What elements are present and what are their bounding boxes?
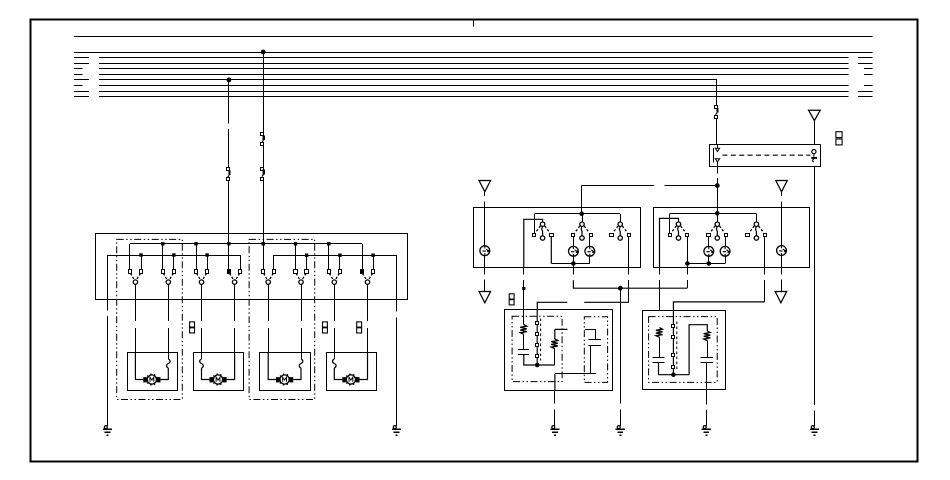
bus left stub 5: [74, 79, 89, 81]
relay unit left box: [505, 310, 613, 391]
connector hook in M2: [200, 359, 204, 372]
switch S2 blade dashes: [163, 273, 173, 280]
connector marker C3 squares: [357, 322, 362, 327]
wire lamp2 top: [589, 237, 591, 247]
junction dot on bus line 5: [227, 78, 231, 82]
bus left stub 1: [74, 57, 89, 59]
cap L2 lower stub: [590, 345, 592, 374]
wire motor M2 right lead: [227, 353, 235, 380]
junction dot W-C: [618, 286, 622, 290]
wire motor M3 right lead upper: [301, 353, 303, 359]
wire bus drop D1 upper: [228, 80, 230, 124]
wire cap RB exit: [706, 363, 708, 390]
right box rail: [670, 213, 757, 215]
switch S7 contact R: [339, 270, 342, 274]
wire rail corner to A left contact: [669, 213, 671, 233]
wire bus drop D3 lower: [716, 119, 718, 145]
wire lampR2 bottom: [725, 256, 727, 263]
wire bus drop D2 upper: [263, 52, 265, 133]
wire W-C ground drop: [620, 288, 622, 403]
junction dot rail P above contact 2L: [161, 242, 164, 245]
wire S8 pole to motor upper: [367, 299, 369, 321]
switch S8 blade dashes: [363, 273, 373, 280]
wire S1 pole to motor lower: [135, 328, 137, 353]
wire contact 7L to rail P: [328, 244, 330, 270]
window motor box M1: [128, 353, 178, 391]
switch S7 blade dashes: [329, 273, 339, 280]
wire contact 4R to rail G: [240, 255, 242, 270]
junction dot under lamp right: [707, 262, 711, 266]
window motor box M4: [327, 353, 377, 391]
wire S6 pole to motor upper: [301, 299, 303, 321]
wire arrow to strip: [814, 121, 816, 145]
wire A-out to lower box: [659, 268, 661, 275]
wire pole S5 down: [268, 284, 270, 299]
under-lamp wire left box: [551, 263, 590, 265]
wire motor M1 left lead: [135, 353, 143, 380]
strip right terminal bar: [811, 157, 817, 159]
wire contact 1L to rail P: [129, 244, 131, 270]
wire contact 2L to rail P: [162, 244, 164, 270]
wire left ground L-exit: [554, 374, 556, 390]
switch S5 pole: [266, 280, 270, 284]
switch S5 blade dashes: [264, 273, 273, 280]
wire contact 4L to rail P: [228, 244, 230, 270]
wire W-B right riser upper: [764, 268, 766, 275]
switch S5 contact R: [273, 270, 276, 274]
junction dot rail P above contact 6L: [294, 242, 297, 245]
coil RB: [704, 331, 711, 341]
wire contact 5R to rail G: [273, 255, 275, 270]
motor M1: [147, 375, 156, 384]
junction dot left rail: [580, 212, 584, 216]
ground G5: [703, 426, 706, 429]
capacitor L2 plates: [589, 339, 602, 341]
wire C right contact down: [764, 237, 766, 268]
switch S3 pole: [199, 280, 203, 284]
wire bus drop D1 lower: [228, 181, 230, 244]
junction dot on bus line B: [261, 50, 265, 54]
wire B pivot to rail: [717, 213, 719, 222]
wire coil LB down: [554, 349, 556, 365]
wire motor M4 left lead upper: [334, 353, 336, 359]
wire W-B right riser lower: [764, 280, 766, 302]
switch S7 pole: [332, 280, 336, 284]
wire lamps-common upper: [573, 264, 575, 275]
strip right hook: [813, 154, 814, 162]
ground G1: [104, 426, 107, 429]
connector strip dashed line: [722, 154, 810, 156]
bus line A: [74, 36, 873, 38]
capacitor RA plates: [653, 357, 665, 359]
wire ground G5 upper: [706, 390, 708, 405]
strip left terminal upper: [715, 148, 719, 151]
right box switch C: [754, 222, 758, 226]
right box switch A: [676, 222, 680, 226]
left box switch 2: [580, 222, 584, 226]
wire T1 to box: [484, 202, 486, 208]
wire S4 pole to motor lower: [234, 328, 236, 353]
wire mid branch right: [689, 325, 707, 375]
wire lampR1 top: [708, 237, 710, 247]
wire left lamp riser: [484, 208, 486, 246]
wire drop D2 to contact 5L: [263, 244, 265, 270]
wire motor M4 right lead: [360, 353, 368, 380]
wire pole S4 down: [234, 284, 236, 299]
window motor box M2: [194, 353, 244, 391]
inline connector filled: [522, 287, 525, 290]
frame top tick: [473, 20, 475, 26]
switch S2 contact L: [162, 270, 165, 274]
wire bus drop D2 lower: [263, 180, 265, 243]
junction dot rail G2 above contact 6R: [305, 254, 308, 257]
motor M3: [280, 375, 289, 384]
wire motor M1 right lead lower: [160, 372, 168, 380]
wire W-B left riser upper: [628, 268, 630, 275]
connector marker C4 squares: [836, 132, 842, 138]
wire S2 pole to motor lower: [168, 328, 170, 353]
switch S3 contact L: [195, 270, 198, 274]
wire motor M3 left lead: [268, 353, 276, 380]
wire ground G2 riser: [396, 255, 398, 311]
wire A right contact down: [687, 237, 689, 268]
wire ground G3 upper: [554, 390, 556, 403]
dash-dot case door unit 1: [117, 239, 183, 399]
junction dot rail P above contact 3L: [194, 242, 197, 245]
wire S1 pivot L-wire: [524, 219, 543, 267]
connector hook in M3: [299, 359, 303, 372]
switch S4 contact R: [239, 270, 242, 274]
wire right lamp out upper: [781, 268, 783, 275]
switch S6 pole: [299, 280, 303, 284]
lamp R1: [704, 246, 714, 256]
switch S1 blade dashes: [131, 273, 141, 280]
wire ground G2 riser lower: [396, 317, 398, 426]
junction dot under lamp: [572, 262, 576, 266]
bus right stub 8: [858, 96, 873, 98]
right lighting switch box: [654, 208, 810, 268]
page arrow out left: [479, 292, 491, 303]
bus line 2: [99, 63, 849, 65]
wire W-B left riser lower: [628, 280, 630, 302]
ground rail G2: [274, 255, 397, 257]
junction dot rail G2 above contact 8R: [371, 254, 374, 257]
wire W-A horizontal b: [664, 185, 717, 187]
wire right lamp lower: [781, 255, 783, 267]
connector on drop D1: [227, 168, 230, 171]
relay unit right box: [643, 311, 726, 390]
bus line 5: [99, 79, 717, 81]
wire motor M4 left lead lower: [334, 372, 342, 380]
wire ground G1 riser lower: [107, 316, 109, 426]
wire W-C right riser lower: [687, 280, 689, 288]
wire S4 pole to motor upper: [234, 299, 236, 321]
capacitor RB plates: [701, 357, 713, 359]
left box switch 1: [540, 222, 544, 226]
junction dot lower-left: [535, 363, 539, 367]
page arrow into right lamp circuit: [776, 181, 788, 192]
wire right lamp riser: [781, 207, 783, 245]
rail from battery (P): [130, 243, 362, 245]
wire motor M1 right lead upper: [168, 353, 170, 359]
ground G3: [552, 426, 555, 429]
bus right stub 2: [858, 63, 873, 65]
wire W-A riser inside: [581, 208, 583, 214]
wire motor M3 right lead lower: [293, 372, 301, 380]
dash-dot case door unit 2: [249, 239, 315, 399]
wire strip right vertical lower: [814, 410, 816, 426]
coil RA: [656, 328, 663, 338]
junction dot W-A: [715, 184, 719, 188]
switch S5 contact L: [262, 270, 265, 274]
ground G4: [617, 426, 620, 429]
coil LB top wire: [555, 329, 568, 339]
junction dot rail G1 above contact 3R: [205, 253, 208, 256]
wire left lamp out lower: [484, 280, 486, 291]
left box switch 3: [618, 222, 622, 226]
connector on drop D2 lower: [261, 168, 264, 171]
bus left stub 2: [74, 63, 89, 65]
ground rail G1: [107, 255, 240, 257]
power window master switch box: [96, 234, 408, 300]
junction dot rail G1 above contact 2R: [172, 253, 175, 256]
wire lamp1 top: [573, 237, 575, 247]
right box switch B: [715, 222, 719, 226]
bus line 8: [99, 96, 849, 98]
wire S1 right contact down: [550, 237, 552, 264]
wire left lamp lower: [484, 256, 486, 268]
switch S8 pole: [365, 280, 369, 284]
junction dot rail P above contact 7L: [327, 242, 330, 245]
cap unit L2 bottom wire: [555, 373, 596, 375]
dash-dot shield left-1: [512, 316, 562, 381]
bus line 3: [99, 68, 849, 70]
lamp L0 left: [480, 246, 490, 256]
wire S2 pole to motor upper: [168, 299, 170, 321]
wire lampR1 bottom: [708, 256, 710, 263]
connector marker C5 squares: [509, 294, 514, 299]
bus right stub 4: [864, 74, 873, 76]
wire rail corner to C pivot: [756, 213, 758, 222]
switch S8 contact L: [361, 270, 364, 274]
wire contact 7R to rail G: [339, 255, 341, 270]
wire pole S6 down: [301, 284, 303, 299]
wire lamps-common lower: [573, 280, 687, 288]
wire S6 pole to motor lower: [301, 328, 303, 353]
wire pole S8 down: [367, 284, 369, 299]
wire coil RB down: [707, 341, 709, 358]
connector on drop D2 upper: [261, 133, 264, 136]
switch S6 contact R: [305, 270, 309, 274]
left box rail: [534, 213, 620, 215]
wire strip to junction lower: [717, 178, 719, 186]
dash-dot shield left-2: [584, 317, 607, 383]
motor M2: [213, 375, 222, 384]
junction dot rail P at drop D2: [262, 242, 265, 245]
wire S5 pole to motor upper: [268, 299, 270, 321]
bus right stub 1: [858, 57, 873, 59]
lamp R0 right: [777, 246, 787, 256]
cap L2 stub down: [595, 329, 597, 339]
junction dot rail P at drop D1: [227, 242, 230, 245]
wire motor M2 left lead lower: [202, 372, 210, 380]
wire lampR2 top: [725, 237, 727, 247]
wire rail corner to S1 left contact: [534, 214, 536, 234]
wire W-B right horizontal: [673, 302, 764, 311]
connector on drop D3: [715, 106, 718, 109]
motor M4: [346, 375, 355, 384]
junction dot rail G1 above contact 1R: [139, 253, 142, 256]
strip right terminal loop: [812, 150, 816, 154]
bus left stub 7: [74, 91, 89, 93]
switch S1 contact L: [129, 270, 132, 274]
window motor box M3: [260, 353, 311, 391]
wire bus drop D3 upper: [716, 80, 718, 105]
bus left stub 3: [74, 68, 83, 70]
wire contact 6L to rail P: [295, 244, 297, 270]
wire drop D1 to contact 4L: [228, 244, 230, 270]
wire S8 pole to motor lower: [367, 328, 369, 353]
switch S2 contact R: [173, 270, 176, 274]
junction dot right rail: [716, 212, 720, 216]
ladder connector left: [536, 322, 539, 325]
connector marker C1 squares: [190, 322, 195, 327]
switch S4 contact L: [228, 270, 231, 274]
lamp R2: [720, 246, 730, 256]
wire contact 3R to rail G: [207, 255, 209, 270]
bus left stub 4: [74, 74, 83, 76]
wire contact 8L to rail P: [362, 244, 364, 270]
dash-dot shield right: [649, 317, 718, 383]
wire rail corner to S3 pivot: [620, 214, 622, 222]
wire A-out lower: [659, 280, 661, 311]
wire lamp1 bottom: [573, 256, 575, 263]
page arrow out right: [775, 292, 787, 303]
wire W-B horizontal a: [537, 302, 567, 310]
wire contact 1R to rail G: [141, 255, 143, 270]
wire strip left pin upper: [717, 145, 719, 149]
switch S2 pole: [166, 280, 170, 284]
wire motor M2 left lead upper: [201, 353, 203, 359]
wire coil LA down: [523, 334, 525, 350]
under-lamp wire right box: [687, 263, 725, 265]
wire S1 pole to motor upper: [135, 299, 137, 321]
bus line B: [74, 52, 873, 54]
wire contact 5L to rail P: [263, 244, 265, 270]
switch S7 contact L: [328, 270, 331, 274]
wire W-A riser inside right: [717, 207, 719, 213]
lamp L1: [569, 246, 579, 256]
wire T3 to box: [781, 202, 783, 208]
wire cap LA down: [524, 354, 555, 365]
wire coil RA down: [659, 337, 661, 357]
switch S1 pole: [133, 280, 137, 284]
strip left terminal lower: [715, 159, 719, 162]
wire ground G3 lower: [554, 410, 556, 426]
wire pole S2 down: [168, 284, 170, 299]
wire pole S3 down: [201, 284, 203, 299]
wire S3 pole to motor lower: [201, 328, 203, 353]
wire cap RA down: [659, 363, 690, 375]
wire ground G1 riser: [107, 255, 109, 310]
switch S3 contact R: [206, 270, 209, 274]
wire S7 pole to motor lower: [334, 328, 336, 353]
capacitor LA plates: [518, 349, 529, 351]
wire S7 pole to motor upper: [334, 299, 336, 321]
wire strip to junction upper: [717, 166, 719, 174]
bus right stub 3: [864, 68, 873, 70]
junction dot rail G2 above contact 7R: [338, 254, 341, 257]
wire contact 2R to rail G: [173, 255, 175, 270]
wire contact 6R to rail G: [306, 255, 308, 270]
wire pole S1 down: [135, 284, 137, 299]
wire strip left pin lower: [717, 162, 719, 166]
wire arrow stub T3: [781, 192, 783, 196]
bus right stub 6: [864, 85, 873, 87]
wire W-A horizontal a: [581, 185, 654, 187]
strip left terminal bracket: [713, 148, 715, 162]
wire S3 right contact down: [628, 237, 630, 268]
wire W-A into right box: [717, 186, 719, 208]
switch S3 blade dashes: [197, 273, 207, 280]
wire pole S7 down: [334, 284, 336, 299]
connector hook in M1: [167, 359, 171, 372]
wire S1 out lower: [523, 280, 525, 310]
bus line 1: [99, 57, 849, 59]
wire ground G5 lower: [706, 410, 708, 426]
wire S2 pivot to rail: [582, 214, 584, 222]
wire lamp2 bottom: [589, 256, 591, 263]
ladder connector right: [672, 325, 675, 328]
wire W-B horizontal b: [584, 301, 629, 303]
connector strip box: [710, 145, 821, 167]
bus line 6: [99, 85, 849, 87]
lamp L2: [585, 246, 595, 256]
switch S4 blade dashes: [230, 273, 240, 280]
wire bus drop D2 mid: [263, 146, 265, 167]
wire strip right vertical: [814, 166, 816, 405]
coil LB: [551, 339, 558, 349]
bus line 7: [99, 91, 849, 93]
wire contact 8R to rail G: [373, 255, 375, 270]
bus left stub 6: [74, 85, 83, 87]
connector marker C2 squares: [323, 322, 328, 327]
switch S1 contact R: [140, 270, 143, 274]
ground G2: [393, 426, 396, 429]
switch S6 blade dashes: [296, 273, 306, 280]
junction dot lower-right: [672, 373, 676, 377]
page arrow into left lamp circuit: [479, 181, 491, 192]
wire W-C right riser upper: [687, 268, 689, 275]
bus line 4: [99, 74, 849, 76]
wire bus drop D1 mid: [228, 129, 230, 168]
coil LA: [520, 325, 527, 335]
ground G6: [811, 426, 814, 429]
wire S1 out upper: [523, 268, 525, 275]
connector hook in M4: [333, 359, 337, 372]
switch S8 contact R: [372, 270, 375, 274]
wire ground G4 lower: [620, 410, 622, 426]
page arrow battery feed: [809, 110, 821, 120]
wire arrow stub T1: [484, 192, 486, 196]
cap unit L2 top wire: [585, 329, 596, 331]
bus left stub 8: [74, 96, 89, 98]
bus right stub 7: [858, 91, 873, 93]
wire S3 pole to motor upper: [201, 299, 203, 321]
left lighting switch box: [474, 208, 641, 268]
wire A pivot L-wire: [660, 218, 679, 267]
switch S4 pole: [232, 280, 236, 284]
